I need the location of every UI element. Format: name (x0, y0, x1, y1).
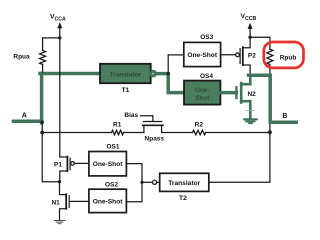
svg-text:One-Shot: One-Shot (187, 52, 217, 59)
wire: green T1 output to OS4 (155, 74, 184, 93)
svg-text:One-Shot: One-Shot (93, 199, 123, 206)
highlight: red rounded box around Rpub (264, 42, 304, 68)
svg-text:R1: R1 (113, 121, 122, 128)
wire: black branch up to OS3 input (168, 55, 184, 74)
wire: Npass to R2 (162, 132, 193, 134)
wire: green horizontal A-node to T1 input (40, 72, 100, 76)
wire: VCCA down to P1 source (crosses green) (59, 38, 61, 157)
transistor N2 (green) (236, 75, 250, 118)
transistor P2 (236, 37, 251, 74)
resistor R2 (193, 130, 206, 135)
ground (N1 source) (54, 221, 65, 224)
svg-text:P2: P2 (248, 53, 256, 60)
svg-text:One-Shot: One-Shot (93, 161, 123, 168)
wire: green B node bus (drains + Rpub to B) (249, 75, 297, 122)
svg-text:Bias: Bias (124, 112, 138, 119)
wire: P1 gate to OS1 (74, 162, 89, 164)
wire: B junction up to B terminal (269, 122, 271, 132)
wire: N1 gate to OS2 (70, 200, 89, 202)
svg-text:One-: One- (195, 87, 210, 94)
bulk tick on N2 source (246, 110, 254, 112)
one-shot OS3 (184, 42, 221, 66)
svg-text:Translator: Translator (109, 72, 141, 79)
wire: main A-B wire left segment (42, 132, 111, 134)
svg-text:OS4: OS4 (200, 73, 213, 80)
svg-text:T2: T2 (179, 195, 187, 202)
svg-text:Shot: Shot (195, 95, 210, 102)
svg-text:N2: N2 (247, 91, 256, 98)
wire: VCCB to Rpub branch (250, 37, 270, 49)
node: VCCA junction dot (58, 36, 61, 39)
svg-text:OS1: OS1 (106, 144, 119, 151)
node: A junction dot (41, 121, 44, 124)
transistor N1 (60, 182, 70, 220)
one-shot OS2 (89, 189, 127, 212)
T2 output bubble (153, 180, 157, 184)
svg-text:Rpub: Rpub (280, 55, 297, 62)
wire: green vertical A-node riser (40, 74, 44, 123)
node: B junction dot (268, 130, 272, 134)
svg-text:N1: N1 (51, 199, 60, 206)
svg-text:R2: R2 (195, 122, 204, 129)
svg-text:Translator: Translator (168, 180, 200, 187)
wire: A node down to main wire and P1/N1 (42, 122, 59, 182)
node: VCCB junction dot (248, 36, 251, 39)
node: P1/N1 drain junction dot (58, 180, 61, 183)
node: T1 output junction dot (167, 72, 170, 75)
wire: green OS4 output to N2 gate (220, 91, 236, 95)
wire: green A terminal wire (13, 120, 41, 124)
wire: R2 to B junction (206, 132, 270, 134)
power VCCB arrow (249, 29, 251, 38)
svg-text:OS2: OS2 (105, 181, 118, 188)
wire: VCCA to Rpua branch (43, 38, 60, 51)
power VCCA arrow (59, 28, 61, 38)
wire: OS1/OS2 inputs joined to T2 output bubble (126, 164, 142, 202)
one-shot OS4 (green) (184, 81, 220, 105)
wire: T2 input from B node (209, 132, 270, 182)
svg-text:P1: P1 (54, 162, 62, 169)
svg-text:Rpua: Rpua (13, 54, 30, 61)
node: main wire junction dot (40, 131, 44, 135)
resistor Rpub (267, 49, 273, 64)
translator T2 (160, 173, 209, 191)
wire: OS3 output to P2 gate bubble (221, 54, 236, 56)
svg-text:A: A (22, 113, 27, 120)
translator T1 (green) (100, 64, 151, 83)
transistor Npass (141, 116, 163, 133)
one-shot OS1 (89, 152, 127, 176)
wire: R1 to Npass (124, 132, 144, 134)
resistor R1 (112, 130, 124, 135)
node: one-shot input junction dot (140, 181, 143, 184)
T1 output bubble (green) (151, 71, 156, 76)
transistor P1 (60, 157, 74, 182)
resistor Rpua (40, 50, 46, 64)
svg-text:Npass: Npass (145, 136, 165, 143)
svg-text:B: B (282, 113, 287, 120)
svg-text:T1: T1 (122, 87, 130, 94)
ground (N2 source, green) (244, 119, 257, 123)
svg-text:OS3: OS3 (200, 34, 213, 41)
